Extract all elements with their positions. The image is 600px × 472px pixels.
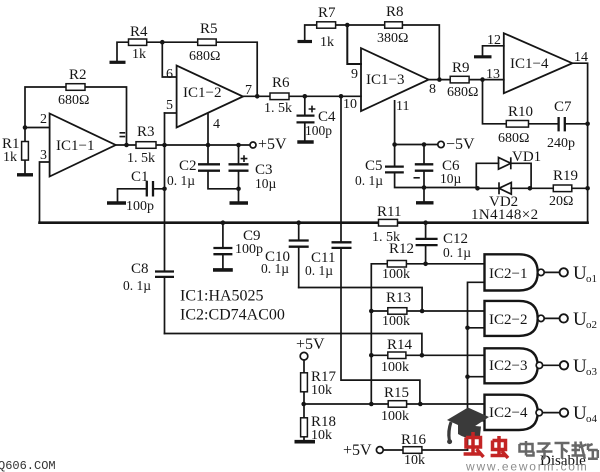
svg-text:240p: 240p	[547, 136, 575, 151]
svg-text:380Ω: 380Ω	[377, 31, 408, 46]
svg-text:R12: R12	[389, 241, 414, 257]
svg-text:5: 5	[166, 98, 173, 113]
svg-text:IC2:CD74AC00: IC2:CD74AC00	[180, 307, 285, 324]
svg-text:1k: 1k	[3, 150, 17, 165]
svg-text:VD1: VD1	[512, 149, 541, 165]
svg-text:R16: R16	[401, 432, 427, 448]
svg-text:10k: 10k	[311, 383, 332, 398]
svg-text:100k: 100k	[382, 267, 410, 282]
svg-text:100p: 100p	[305, 123, 332, 138]
svg-text:680Ω: 680Ω	[58, 93, 89, 108]
svg-text:2: 2	[40, 112, 47, 127]
svg-text:R9: R9	[452, 60, 470, 76]
svg-text:1. 5k: 1. 5k	[127, 151, 155, 166]
svg-text:12: 12	[487, 33, 501, 48]
svg-text:0. 1µ: 0. 1µ	[443, 245, 471, 260]
svg-text:100k: 100k	[381, 409, 409, 424]
svg-text:11: 11	[396, 99, 409, 114]
svg-text:C2: C2	[179, 158, 197, 174]
svg-text:680Ω: 680Ω	[447, 85, 478, 100]
svg-text:0. 1µ: 0. 1µ	[123, 278, 151, 293]
svg-text:IC2−4: IC2−4	[489, 405, 528, 421]
svg-text:o2: o2	[586, 319, 597, 331]
svg-text:10k: 10k	[404, 453, 425, 468]
svg-text:IC2−1: IC2−1	[489, 266, 527, 282]
svg-text:0. 1µ: 0. 1µ	[355, 173, 383, 188]
svg-text:R19: R19	[553, 168, 578, 184]
svg-text:14: 14	[574, 50, 588, 65]
svg-text:o1: o1	[586, 273, 597, 285]
svg-text:R4: R4	[130, 24, 148, 40]
svg-text:+5V: +5V	[258, 136, 287, 153]
svg-text:+5V: +5V	[296, 336, 325, 353]
svg-text:U: U	[573, 309, 587, 330]
svg-text:100k: 100k	[381, 360, 409, 375]
svg-text:C5: C5	[365, 158, 383, 174]
svg-text:IC1:HA5025: IC1:HA5025	[180, 288, 264, 305]
svg-text:100k: 100k	[382, 314, 410, 329]
svg-text:U: U	[573, 403, 587, 424]
svg-text:4: 4	[213, 117, 220, 132]
svg-text:0. 1µ: 0. 1µ	[305, 263, 333, 278]
svg-text:Q606.COM: Q606.COM	[0, 459, 56, 472]
svg-text:20Ω: 20Ω	[549, 194, 573, 209]
svg-text:0. 1µ: 0. 1µ	[261, 261, 289, 276]
svg-text:680Ω: 680Ω	[189, 49, 220, 64]
svg-text:13: 13	[486, 67, 500, 82]
svg-text:0. 1µ: 0. 1µ	[167, 173, 195, 188]
svg-text:IC2−2: IC2−2	[489, 312, 527, 328]
svg-text:3: 3	[40, 148, 47, 163]
svg-text:o3: o3	[586, 366, 598, 378]
svg-text:R10: R10	[508, 104, 533, 120]
svg-text:6: 6	[166, 67, 173, 82]
svg-text:−5V: −5V	[446, 136, 475, 153]
svg-text:R5: R5	[200, 21, 218, 37]
svg-text:IC1−4: IC1−4	[510, 56, 549, 72]
svg-text:IC1−2: IC1−2	[183, 85, 221, 101]
svg-text:R3: R3	[137, 124, 155, 140]
svg-text:1N4148×2: 1N4148×2	[471, 207, 539, 223]
svg-text:R7: R7	[318, 5, 336, 21]
svg-text:IC1−1: IC1−1	[56, 138, 94, 154]
svg-text:U: U	[573, 263, 587, 284]
svg-text:C1: C1	[131, 169, 149, 185]
svg-text:www.eeworm.com: www.eeworm.com	[465, 460, 589, 472]
svg-text:9: 9	[351, 67, 358, 82]
svg-text:10µ: 10µ	[440, 171, 462, 186]
svg-text:10µ: 10µ	[255, 176, 277, 191]
svg-text:1k: 1k	[320, 35, 334, 50]
svg-text:C7: C7	[554, 99, 572, 115]
svg-text:R15: R15	[384, 385, 409, 401]
svg-text:C8: C8	[131, 261, 149, 277]
svg-text:IC2−3: IC2−3	[489, 358, 527, 374]
svg-text:U: U	[573, 356, 587, 377]
svg-text:R2: R2	[69, 67, 87, 83]
svg-text:+5V: +5V	[343, 442, 372, 459]
svg-text:R13: R13	[386, 290, 411, 306]
svg-text:IC1−3: IC1−3	[366, 72, 404, 88]
svg-text:10: 10	[343, 97, 357, 112]
svg-text:R8: R8	[386, 4, 404, 20]
svg-text:1k: 1k	[132, 47, 146, 62]
svg-text:10k: 10k	[311, 428, 332, 443]
svg-text:100p: 100p	[235, 242, 263, 257]
svg-text:o4: o4	[586, 413, 598, 425]
svg-text:8: 8	[429, 82, 436, 97]
svg-text:R11: R11	[377, 204, 401, 220]
svg-text:7: 7	[245, 83, 252, 98]
svg-text:100p: 100p	[126, 199, 154, 214]
svg-text:R6: R6	[272, 75, 290, 91]
svg-text:680Ω: 680Ω	[498, 131, 529, 146]
svg-text:R14: R14	[387, 337, 413, 353]
svg-text:1. 5k: 1. 5k	[264, 101, 292, 116]
